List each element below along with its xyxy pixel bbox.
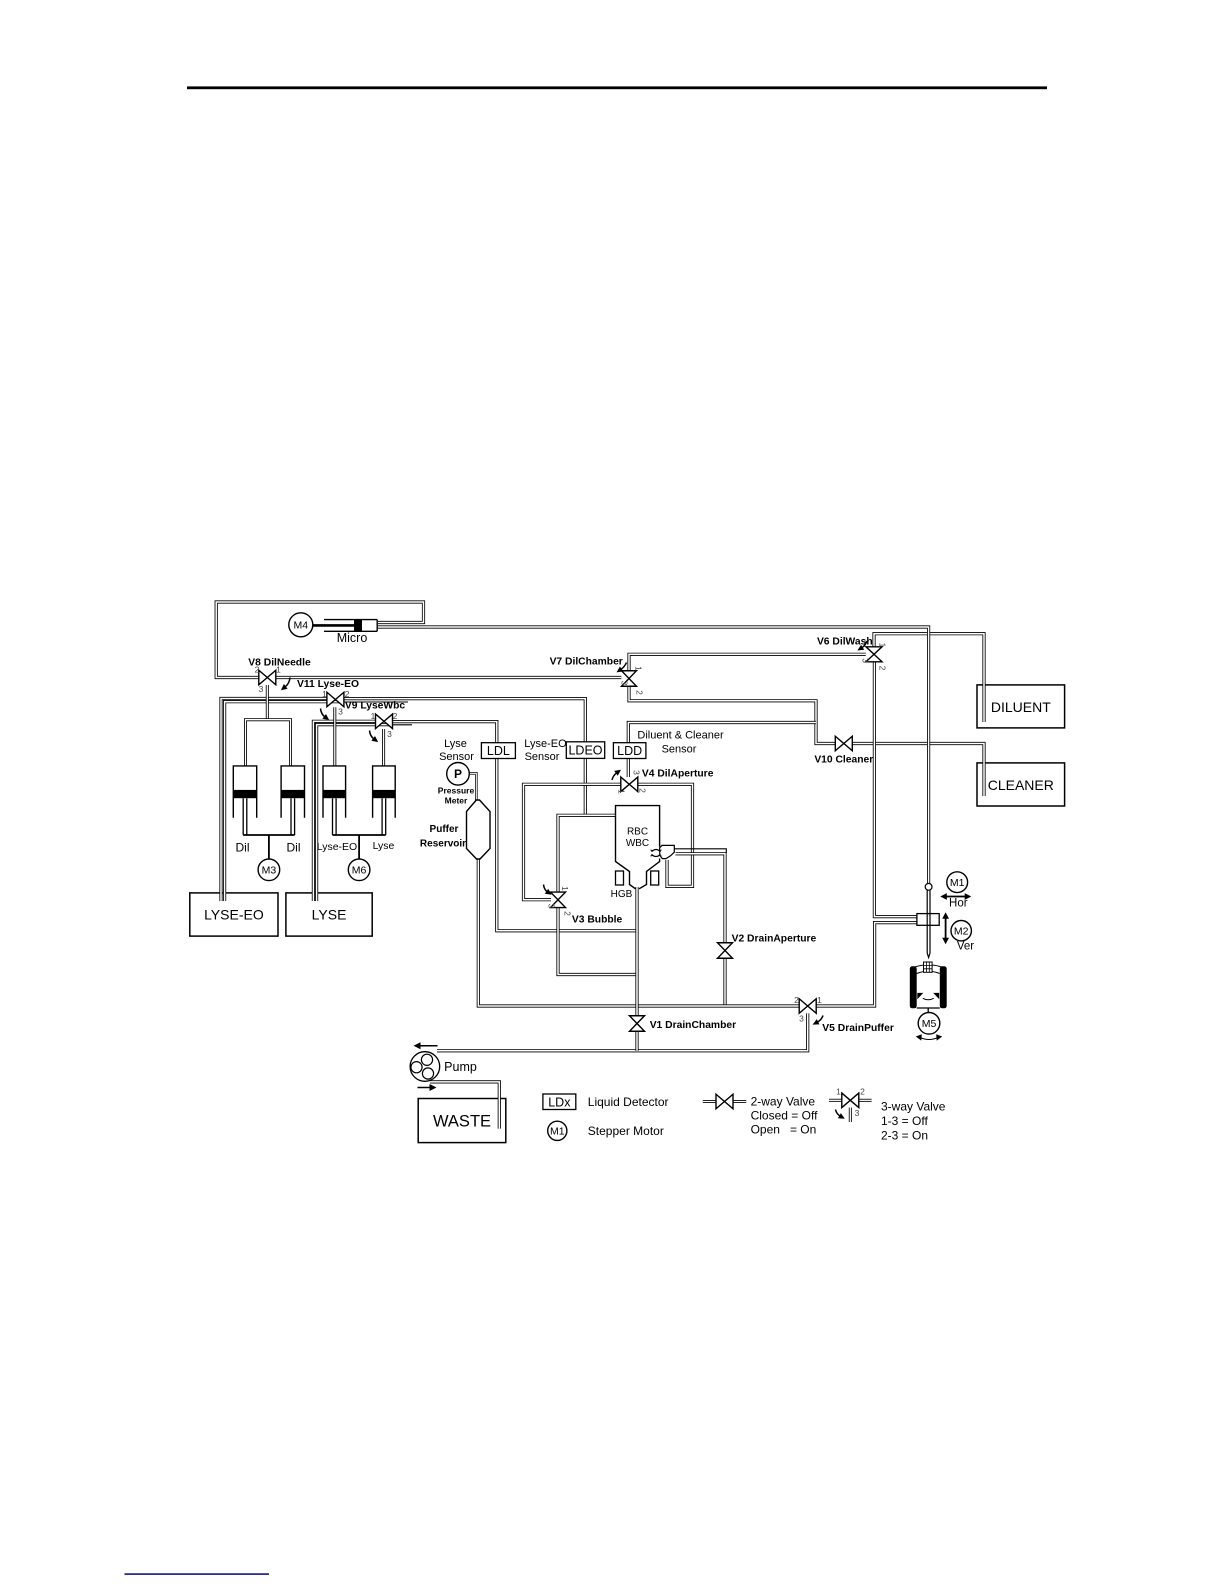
svg-text:Sensor: Sensor	[525, 751, 560, 763]
svg-text:2: 2	[635, 690, 645, 695]
valve V9 LyseWbc	[376, 714, 393, 729]
peristaltic pump	[410, 1052, 440, 1082]
svg-text:Lyse-EO: Lyse-EO	[524, 738, 567, 750]
svg-text:1: 1	[617, 789, 627, 794]
wire V7 bottom to V10 via LDD junction	[629, 686, 835, 744]
svg-text:Closed = Off: Closed = Off	[751, 1109, 818, 1123]
LYSE reservoir box	[286, 893, 372, 936]
svg-text:1-3 = Off: 1-3 = Off	[881, 1114, 928, 1128]
svg-text:V1 DrainChamber: V1 DrainChamber	[650, 1020, 736, 1031]
valve V6 DilWash	[866, 647, 882, 662]
svg-text:3: 3	[861, 658, 871, 663]
svg-text:Dil: Dil	[287, 841, 301, 855]
wire V10 right port to CLEANER	[852, 744, 984, 797]
svg-text:V11 Lyse-EO: V11 Lyse-EO	[297, 679, 359, 690]
legend 3-way arrow	[836, 1110, 845, 1119]
valve V2 DrainAperture	[718, 943, 733, 959]
WASTE reservoir box	[418, 1099, 506, 1143]
wire V4 port2 to aperture housing back	[638, 784, 693, 886]
stepper motor M3	[258, 859, 280, 881]
svg-text:CLEANER: CLEANER	[988, 777, 1054, 793]
arrow at V3	[544, 885, 552, 895]
pressure meter P	[447, 763, 470, 786]
svg-text:2: 2	[878, 666, 888, 671]
puffer reservoir vessel	[467, 800, 491, 859]
arrow at V6	[857, 641, 866, 651]
svg-text:HGB: HGB	[611, 889, 633, 900]
valve V11 Lyse-EO	[327, 692, 344, 707]
wire V11 port3 riser to Lyse-EO syringe	[333, 707, 336, 765]
wire pressure meter to puffer	[469, 773, 476, 801]
wire V1 bottom to pump line	[635, 1031, 638, 1051]
svg-text:M3: M3	[262, 865, 277, 877]
legend 3-way valve left stub	[829, 1099, 842, 1102]
legend 2-way valve right stub	[733, 1100, 746, 1103]
svg-text:3: 3	[632, 770, 642, 775]
svg-text:LDD: LDD	[617, 744, 642, 758]
top horizontal rule	[187, 86, 1047, 89]
RBC WBC counting chamber	[616, 806, 660, 889]
svg-text:Lyse: Lyse	[444, 738, 467, 750]
svg-text:3: 3	[799, 1014, 804, 1024]
wire V7 top to V6 port3	[629, 654, 866, 671]
M2 vertical arrow	[942, 912, 949, 944]
wire V4 port1 to V3 port3	[524, 784, 621, 899]
svg-text:V4 DilAperture: V4 DilAperture	[642, 769, 714, 780]
svg-text:LDL: LDL	[487, 744, 510, 758]
svg-text:3: 3	[387, 729, 392, 739]
wire aperture housing to V2 DrainAperture	[676, 854, 726, 943]
svg-text:Puffer: Puffer	[430, 824, 459, 835]
svg-text:3: 3	[620, 681, 630, 686]
svg-text:1: 1	[817, 995, 822, 1005]
wire V8 to V7 DilChamber	[276, 676, 622, 679]
svg-text:3: 3	[547, 904, 557, 909]
wire micro-syringe to V8 loop (top-left)	[216, 602, 423, 678]
svg-text:Meter: Meter	[445, 796, 468, 806]
wire V4 port3 riser through LDD sensor	[628, 723, 816, 778]
svg-text:WBC: WBC	[626, 838, 649, 849]
svg-text:Hor: Hor	[949, 898, 968, 910]
arrow at V4	[612, 770, 621, 780]
legend 3-way valve	[842, 1093, 859, 1108]
legend 3-way valve right stub	[859, 1099, 872, 1102]
svg-text:M2: M2	[954, 925, 969, 937]
svg-text:2: 2	[860, 1087, 865, 1097]
wire chamber drain to V1 top	[635, 887, 638, 1016]
svg-text:V10 Cleaner: V10 Cleaner	[814, 755, 873, 766]
svg-text:Pressure: Pressure	[438, 786, 475, 796]
svg-text:Reservoir: Reservoir	[420, 839, 466, 850]
svg-text:Ver: Ver	[957, 941, 974, 953]
valve V10 Cleaner	[835, 736, 852, 751]
wire puffer reservoir to V5 port2 (drain bus A)	[478, 858, 799, 1006]
svg-text:V5 DrainPuffer: V5 DrainPuffer	[822, 1023, 894, 1034]
svg-text:Lyse: Lyse	[373, 840, 395, 852]
valve V4 DilAperture	[621, 777, 638, 792]
svg-text:Stepper Motor: Stepper Motor	[588, 1124, 664, 1138]
svg-text:M1: M1	[950, 877, 965, 889]
wire LYSE bottle second line	[317, 725, 393, 901]
legend 3-way valve bottom stub	[849, 1108, 852, 1123]
wire LYSE-EO bottle to V11 port1 (outer)	[221, 699, 327, 902]
valve V5 DrainPuffer	[799, 999, 816, 1014]
svg-text:Lyse-EO: Lyse-EO	[317, 841, 357, 853]
micro syringe barrel	[313, 620, 377, 632]
wire V8 port3 riser to Dil manifold	[266, 685, 269, 720]
needle stop bead	[925, 883, 932, 890]
bottom-left blue underline	[125, 1573, 270, 1575]
sample needle	[927, 884, 930, 958]
wire V3 port2 to chamber drain	[558, 907, 637, 974]
svg-text:1: 1	[560, 886, 570, 891]
wire micro-syringe to sample needle	[378, 627, 929, 884]
svg-text:M6: M6	[352, 865, 367, 877]
wire V9 port3 riser to Lyse syringe	[382, 729, 385, 766]
liquid detector LDD	[613, 743, 646, 759]
wire Lyse bypass hairline	[393, 724, 413, 726]
wire V6 port2 down to needle wash collar	[874, 662, 917, 917]
valve V7 DilChamber	[622, 671, 637, 687]
svg-text:WASTE: WASTE	[433, 1112, 491, 1130]
aperture housing	[660, 845, 675, 858]
wire V2 bottom to drain bus	[723, 958, 726, 1006]
svg-text:V3 Bubble: V3 Bubble	[572, 915, 623, 926]
svg-text:Micro: Micro	[337, 631, 368, 645]
svg-text:Sensor: Sensor	[439, 751, 474, 763]
svg-text:2: 2	[345, 689, 350, 699]
wire V6 port1 to DILUENT	[874, 634, 984, 722]
svg-text:2: 2	[638, 788, 648, 793]
legend 2-way valve	[716, 1094, 733, 1109]
pump outlet flow arrow	[418, 1084, 437, 1091]
legend 2-way valve left stub	[703, 1100, 716, 1103]
legend stepper motor M1	[548, 1121, 567, 1140]
svg-text:M1: M1	[550, 1126, 565, 1138]
wire V9 port2 to LDL sensor line	[393, 722, 637, 931]
legend liquid detector LDx	[543, 1094, 576, 1110]
svg-text:2: 2	[794, 995, 799, 1005]
stepper motor M1	[947, 872, 968, 893]
svg-text:LDEO: LDEO	[568, 744, 602, 758]
svg-text:V2 DrainAperture: V2 DrainAperture	[732, 933, 817, 944]
Lyse-EO and Lyse syringe barrels	[323, 766, 346, 835]
svg-text:Dil: Dil	[236, 841, 250, 855]
arrow at V11	[321, 709, 330, 721]
M1 horizontal arrow	[940, 893, 971, 900]
wire pump suction line (drain bus B) and V5 port3	[437, 1013, 808, 1050]
svg-text:2-way Valve: 2-way Valve	[751, 1094, 816, 1108]
Lyse syringe yoke and M6 stem	[333, 835, 386, 859]
wire Lyse-EO bypass hairline	[344, 701, 409, 703]
svg-text:1: 1	[634, 666, 644, 671]
svg-text:M5: M5	[922, 1018, 937, 1030]
svg-text:3-way Valve: 3-way Valve	[881, 1099, 946, 1113]
wire Dil syringe manifold	[246, 720, 291, 766]
Dil syringe yoke and M3 stem	[243, 835, 294, 859]
svg-text:LYSE: LYSE	[312, 907, 347, 923]
svg-text:2: 2	[563, 911, 573, 916]
arrow at V5	[813, 1016, 823, 1025]
wire LDEO line tee to chamber and V3	[558, 815, 616, 892]
wire pump discharge to WASTE	[430, 1082, 499, 1129]
stepper motor M6	[348, 859, 370, 881]
svg-text:3: 3	[855, 1108, 860, 1118]
valve V8 DilNeedle	[259, 670, 276, 685]
svg-text:1: 1	[836, 1087, 841, 1097]
stepper motor M4	[289, 613, 313, 637]
aperture upper feed line to V2 riser	[674, 849, 726, 853]
svg-text:RBC: RBC	[627, 827, 648, 838]
svg-text:DILUENT: DILUENT	[991, 699, 1051, 715]
stepper motor M5	[918, 1013, 940, 1035]
valve V1 DrainChamber	[630, 1016, 645, 1032]
liquid detector LDL	[481, 743, 515, 759]
svg-text:Open = On: Open = On	[751, 1122, 817, 1136]
HGB photometer blocks	[616, 871, 624, 885]
arrow at V7	[617, 663, 627, 673]
svg-text:2: 2	[255, 665, 260, 675]
LYSE-EO reservoir box	[190, 893, 278, 936]
wire needle collar drain to V5 port1	[816, 923, 917, 1006]
wire LYSE bottle to V9 port1 (outer)	[313, 721, 375, 901]
svg-text:P: P	[454, 767, 462, 781]
svg-text:LDx: LDx	[548, 1095, 571, 1109]
svg-text:1: 1	[276, 665, 281, 675]
svg-text:LYSE-EO: LYSE-EO	[204, 907, 264, 923]
svg-text:1: 1	[878, 643, 888, 648]
svg-text:2: 2	[393, 711, 398, 721]
CLEANER reservoir box	[977, 763, 1065, 806]
aperture symbol (constriction chevrons)	[651, 849, 662, 856]
valve V3 Bubble	[551, 892, 566, 908]
DILUENT reservoir box	[977, 685, 1065, 728]
svg-text:V9 LyseWbc: V9 LyseWbc	[345, 701, 406, 712]
svg-text:M4: M4	[294, 620, 309, 632]
liquid detector LDEO	[566, 742, 604, 759]
svg-text:1: 1	[322, 689, 327, 699]
Dil syringe pair barrels	[233, 766, 256, 835]
arrow at V8	[281, 678, 290, 691]
svg-text:3: 3	[259, 684, 264, 694]
svg-text:Sensor: Sensor	[662, 744, 697, 756]
stepper motor M2	[951, 921, 971, 941]
svg-text:V7 DilChamber: V7 DilChamber	[550, 657, 623, 668]
svg-text:Pump: Pump	[444, 1060, 477, 1074]
wire LYSE-EO bottle second line	[225, 702, 344, 901]
wire V11 port2 to LDEO sensor line	[344, 699, 585, 815]
needle wash collar	[917, 914, 939, 926]
svg-text:1: 1	[371, 711, 376, 721]
pump inlet flow arrow	[414, 1042, 438, 1049]
svg-text:Diluent & Cleaner: Diluent & Cleaner	[637, 730, 724, 742]
svg-text:Liquid Detector: Liquid Detector	[588, 1095, 669, 1109]
M5 mixing cup	[910, 962, 947, 1008]
arrow at V9	[370, 731, 379, 743]
M5 rotation arrows	[916, 1034, 942, 1040]
svg-text:3: 3	[338, 707, 343, 717]
svg-text:2-3 = On: 2-3 = On	[881, 1128, 928, 1142]
